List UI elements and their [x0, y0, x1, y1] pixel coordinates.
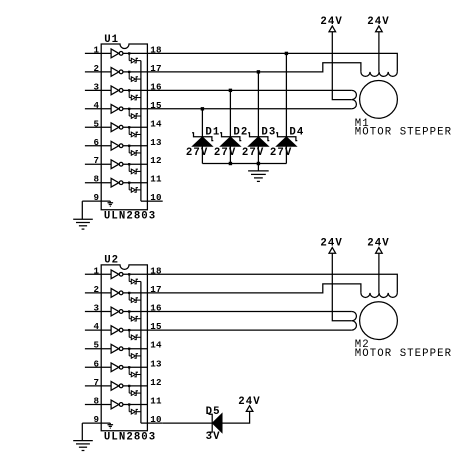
label D2 — [233, 127, 248, 139]
wire U2 output pin 14 — [123, 348, 147, 350]
svg-text:5: 5 — [94, 340, 100, 351]
svg-text:9: 9 — [94, 192, 100, 203]
internal clamp diode U1F — [129, 146, 141, 156]
junction U1D output to clamp diode — [128, 108, 130, 110]
svg-text:D2: D2 — [233, 127, 248, 139]
wire U1 pin 9 ground wire — [82, 200, 110, 202]
ground symbol at U2 pin 9 — [73, 423, 93, 450]
inductor M1 winding B (vertical coil) — [352, 90, 357, 108]
24V power arrow at D5 — [238, 396, 260, 411]
inverter U1F darlington stage — [111, 141, 123, 150]
junction U2C output to clamp diode — [128, 310, 130, 312]
wire pin 16 output to M2 winding B — [147, 311, 351, 313]
label D4 — [289, 127, 304, 139]
inverter U2H darlington stage — [111, 400, 123, 409]
value label 27V (D2) — [214, 147, 236, 159]
junction pin wire to zener D4 — [285, 52, 288, 55]
inverter U2E darlington stage — [111, 344, 123, 353]
value label 27V (D1) — [186, 147, 208, 159]
pin number 10 (U2) — [150, 414, 162, 425]
internal clamp diode U1B — [129, 72, 141, 82]
svg-text:5: 5 — [94, 118, 100, 129]
inverter U1D darlington stage — [111, 104, 123, 113]
pin number 13 (U2) — [150, 358, 162, 369]
junction U2D output to clamp diode — [128, 329, 130, 331]
junction U1F output to clamp diode — [128, 145, 130, 147]
wire U1 pin 10 stub — [147, 200, 162, 202]
svg-text:MOTOR STEPPER: MOTOR STEPPER — [355, 127, 452, 139]
svg-text:6: 6 — [94, 137, 100, 148]
inverter U2G darlington stage — [111, 382, 123, 391]
wire U2 input pin 4 — [85, 329, 111, 331]
junction U1E output to clamp diode — [128, 126, 130, 128]
inverter U1H darlington stage — [111, 178, 123, 187]
pin number 12 (U1) — [150, 155, 162, 166]
svg-text:D4: D4 — [289, 127, 304, 139]
svg-text:12: 12 — [150, 155, 162, 166]
value label 3V (D5) — [206, 431, 221, 443]
wire U2 input pin 7 — [85, 385, 111, 387]
wire U2 pin 10 to zener D5 — [163, 422, 213, 424]
zener diode D3 27V — [248, 133, 269, 164]
motor designator label M1 — [355, 118, 370, 130]
inverter U2B darlington stage — [111, 289, 123, 298]
svg-text:7: 7 — [94, 377, 100, 388]
pin number 11 (U2) — [150, 396, 162, 407]
pin number 2 (U1) — [94, 63, 100, 74]
ground symbol at U1 pin 9 — [73, 201, 93, 229]
junction U1B output to clamp diode — [128, 71, 130, 73]
wire U2 input pin 3 — [85, 311, 111, 313]
svg-text:1: 1 — [94, 265, 100, 276]
IC U1 ULN2803 body — [101, 44, 147, 210]
pin number 12 (U2) — [150, 377, 162, 388]
inverter U1C darlington stage — [111, 86, 123, 95]
junction U1C output to clamp diode — [128, 89, 130, 91]
svg-text:4: 4 — [94, 321, 100, 332]
svg-text:11: 11 — [150, 396, 162, 407]
junction U2G output to clamp diode — [128, 385, 130, 387]
junction U1A output to clamp diode — [128, 52, 130, 54]
wire U2 output pin 18 — [123, 273, 147, 275]
wire U1 input pin 5 — [85, 126, 111, 128]
wire U1 output pin 12 — [123, 163, 147, 165]
inductor M2 winding B (vertical coil) — [352, 312, 357, 331]
junction D2 anode to rail — [229, 162, 232, 165]
motor value label MOTOR STEPPER (M1) — [355, 127, 452, 139]
motor value label MOTOR STEPPER (M2) — [355, 348, 452, 360]
pin number 1 (U2) — [94, 265, 100, 276]
pin number 15 (U2) — [150, 321, 162, 332]
svg-text:8: 8 — [94, 174, 100, 185]
wire U2 input pin 8 — [85, 404, 111, 406]
pin number 11 (U1) — [150, 174, 162, 185]
inverter U2C darlington stage — [111, 307, 123, 316]
svg-text:27V: 27V — [186, 147, 208, 159]
svg-text:7: 7 — [94, 155, 100, 166]
wire U1 input pin 7 — [85, 163, 111, 165]
wire U2 output pin 12 — [123, 385, 147, 387]
inverter U1E darlington stage — [111, 123, 123, 132]
zener diode D5 3V — [209, 414, 222, 432]
junction U2B output to clamp diode — [128, 292, 130, 294]
pin number 14 (U1) — [150, 118, 162, 129]
wire U1 internal common-cathode rail to pin 10 — [141, 61, 148, 202]
wire pin 18 output to M2 winding A — [147, 274, 397, 293]
wire U1 output pin 17 — [123, 71, 147, 73]
wire U1 output pin 18 — [123, 52, 147, 54]
wire U1 input pin 8 — [85, 182, 111, 184]
svg-text:3: 3 — [94, 81, 100, 92]
junction pin wire to zener D2 — [229, 89, 232, 92]
pin number 15 (U1) — [150, 100, 162, 111]
internal clamp diode U2H — [129, 405, 141, 415]
inductor M2 winding A (horizontal coil) — [361, 293, 397, 298]
svg-text:11: 11 — [150, 174, 162, 185]
internal clamp diode U1D — [129, 109, 141, 119]
internal clamp diode U2E — [129, 349, 141, 359]
wire U2 pin 9 ground wire — [82, 422, 110, 424]
wire U1 output pin 15 — [123, 108, 147, 110]
svg-text:27V: 27V — [214, 147, 236, 159]
motor M2 body circle — [360, 302, 398, 340]
internal clamp diode U1G — [129, 164, 141, 174]
zener diode D2 27V — [220, 133, 241, 164]
svg-text:4: 4 — [94, 100, 100, 111]
wire U2 input pin 2 — [85, 292, 111, 294]
wire 24V feed to M1 winding B centre tap — [332, 32, 352, 100]
svg-text:27V: 27V — [242, 147, 264, 159]
svg-text:9: 9 — [94, 414, 100, 425]
wire U1 output pin 13 — [123, 145, 147, 147]
pin number 3 (U1) — [94, 81, 100, 92]
pin number 17 (U1) — [150, 63, 162, 74]
pin number 6 (U1) — [94, 137, 100, 148]
pin number 1 (U1) — [94, 44, 100, 55]
value label 27V (D4) — [270, 147, 292, 159]
inverter U1G darlington stage — [111, 160, 123, 169]
pin number 10 (U1) — [150, 192, 162, 203]
pin number 5 (U1) — [94, 118, 100, 129]
pin number 7 (U2) — [94, 377, 100, 388]
svg-text:2: 2 — [94, 63, 100, 74]
wire U1 input pin 4 — [85, 108, 111, 110]
pin number 8 (U2) — [94, 396, 100, 407]
label D3 — [261, 127, 276, 139]
wire U2 output pin 17 — [123, 292, 147, 294]
junction pin wire to zener D3 — [257, 70, 260, 73]
wire U1 input pin 2 — [85, 71, 111, 73]
svg-text:1: 1 — [94, 44, 100, 55]
internal ground marker U2 pin 9 — [108, 423, 114, 428]
inductor M1 winding A (horizontal coil) — [361, 72, 397, 77]
wire U2 internal common-cathode rail to pin 10 — [141, 282, 148, 424]
internal clamp diode U2A — [129, 274, 141, 284]
wire U2 input pin 6 — [85, 366, 111, 368]
wire U1 output pin 16 — [123, 89, 147, 91]
svg-text:D5: D5 — [206, 406, 221, 418]
svg-text:10: 10 — [150, 192, 162, 203]
wire pin 15 output to M1 winding B — [147, 108, 351, 110]
wire pin 17 output to M2 winding A (with jog) — [147, 284, 361, 293]
inverter U1B darlington stage — [111, 67, 123, 76]
wire zener anode rail — [202, 163, 286, 165]
wire U2 output pin 16 — [123, 311, 147, 313]
wire U1 input pin 6 — [85, 145, 111, 147]
wire pin 18 output to M1 winding A — [147, 53, 397, 71]
label D1 — [205, 127, 220, 139]
internal ground marker U1 pin 9 — [108, 201, 114, 206]
svg-text:3: 3 — [94, 303, 100, 314]
pin number 9 (U1) — [94, 192, 100, 203]
wire U1 output pin 14 — [123, 126, 147, 128]
pin number 6 (U2) — [94, 358, 100, 369]
pin number 8 (U1) — [94, 174, 100, 185]
wire output to zener D4 — [285, 53, 287, 136]
wire U2 output pin 15 — [123, 329, 147, 331]
svg-text:8: 8 — [94, 396, 100, 407]
svg-text:13: 13 — [150, 137, 162, 148]
pin number 13 (U1) — [150, 137, 162, 148]
svg-text:14: 14 — [150, 118, 162, 129]
pin number 18 (U2) — [150, 265, 162, 276]
motor designator label M2 — [355, 339, 370, 351]
pin number 16 (U1) — [150, 81, 162, 92]
wire U2 output pin 13 — [123, 366, 147, 368]
junction pin wire to zener D1 — [201, 107, 204, 110]
pin number 4 (U1) — [94, 100, 100, 111]
ground symbol for zener network — [248, 164, 269, 182]
internal clamp diode U2G — [129, 386, 141, 396]
label D5 — [206, 406, 221, 418]
24V power arrow 1 (left, motor M1) — [320, 16, 342, 32]
junction U2H output to clamp diode — [128, 403, 130, 405]
pin number 17 (U2) — [150, 284, 162, 295]
wire 24V feed to M2 winding B centre tap — [332, 253, 352, 321]
svg-text:3V: 3V — [206, 431, 221, 443]
svg-text:13: 13 — [150, 358, 162, 369]
wire pin 17 output to M1 winding A (with jog) — [147, 63, 361, 72]
pin number 9 (U2) — [94, 414, 100, 425]
pin number 4 (U2) — [94, 321, 100, 332]
pin number 5 (U2) — [94, 340, 100, 351]
wire U1 output pin 11 — [123, 182, 147, 184]
pin number 14 (U2) — [150, 340, 162, 351]
junction U1H output to clamp diode — [128, 182, 130, 184]
wire output to zener D3 — [257, 72, 259, 137]
svg-text:27V: 27V — [270, 147, 292, 159]
wire 24V feed to M2 winding A centre tap — [378, 253, 380, 293]
zener diode D1 27V — [192, 133, 213, 164]
24V power arrow 2 (right, motor M1) — [367, 16, 389, 32]
svg-text:12: 12 — [150, 377, 162, 388]
svg-text:MOTOR STEPPER: MOTOR STEPPER — [355, 348, 452, 360]
IC U1 part value label ULN2803 — [104, 211, 156, 223]
wire U1 input pin 1 — [85, 52, 111, 54]
inverter U1A darlington stage — [111, 49, 123, 58]
inverter U2A darlington stage — [111, 270, 123, 279]
wire 24V feed to M1 winding A centre tap — [378, 32, 380, 72]
svg-text:10: 10 — [150, 414, 162, 425]
junction U2A output to clamp diode — [128, 273, 130, 275]
inverter U2D darlington stage — [111, 326, 123, 335]
24V power arrow 2 (right, motor M2) — [367, 238, 389, 254]
svg-text:U2: U2 — [104, 255, 119, 267]
pin number 16 (U2) — [150, 303, 162, 314]
internal clamp diode U1H — [129, 183, 141, 193]
wire D5 to 24V arrow — [222, 411, 250, 423]
wire U1 input pin 3 — [85, 89, 111, 91]
internal clamp diode U2D — [129, 330, 141, 340]
IC U2 part value label ULN2803 — [104, 432, 156, 444]
wire output to zener D2 — [229, 90, 231, 136]
junction D3 anode to rail — [257, 162, 260, 165]
wire pin 15 output to M2 winding B — [147, 329, 351, 331]
svg-text:ULN2803: ULN2803 — [104, 432, 156, 444]
IC U1 reference designator label — [104, 34, 119, 46]
wire U2 input pin 5 — [85, 348, 111, 350]
svg-text:14: 14 — [150, 340, 162, 351]
IC U2 ULN2803 body — [101, 265, 147, 431]
junction U2E output to clamp diode — [128, 348, 130, 350]
IC U2 reference designator label — [104, 255, 119, 267]
svg-text:2: 2 — [94, 284, 100, 295]
pin number 18 (U1) — [150, 44, 162, 55]
junction U1G output to clamp diode — [128, 163, 130, 165]
svg-text:6: 6 — [94, 358, 100, 369]
wire U2 input pin 1 — [85, 273, 111, 275]
pin number 3 (U2) — [94, 303, 100, 314]
wire pin 16 output to M1 winding B — [147, 89, 351, 91]
wire U2 pin 10 stub — [147, 422, 162, 424]
internal clamp diode U2F — [129, 367, 141, 377]
svg-text:U1: U1 — [104, 34, 119, 46]
internal clamp diode U2C — [129, 312, 141, 322]
motor M1 body circle — [360, 80, 398, 118]
zener diode D4 27V — [276, 133, 297, 164]
svg-text:D1: D1 — [205, 127, 220, 139]
pin number 2 (U2) — [94, 284, 100, 295]
svg-text:D3: D3 — [261, 127, 276, 139]
wire output to zener D1 — [201, 109, 203, 137]
internal clamp diode U1C — [129, 90, 141, 100]
internal clamp diode U1E — [129, 127, 141, 137]
junction U2F output to clamp diode — [128, 366, 130, 368]
svg-text:ULN2803: ULN2803 — [104, 211, 156, 223]
inverter U2F darlington stage — [111, 363, 123, 372]
wire U2 output pin 11 — [123, 404, 147, 406]
24V power arrow 1 (left, motor M2) — [320, 238, 342, 254]
value label 27V (D3) — [242, 147, 264, 159]
internal clamp diode U2B — [129, 293, 141, 303]
pin number 7 (U1) — [94, 155, 100, 166]
internal clamp diode U1A — [129, 53, 141, 63]
